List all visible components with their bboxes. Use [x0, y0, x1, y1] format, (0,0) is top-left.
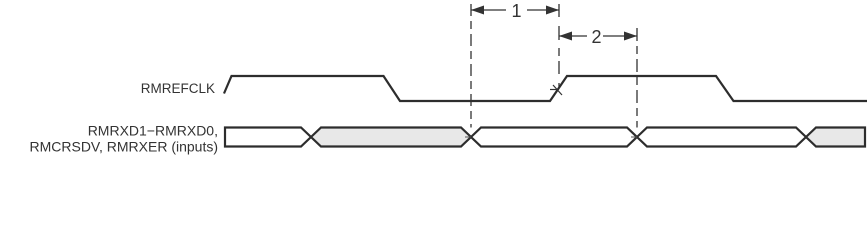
- dashed line B x=559: [558, 4, 560, 87]
- dimension 2 line left segment: [559, 35, 587, 37]
- bus segment 3 white 471-637: [471, 128, 637, 147]
- bus crossover tick at 471: [465, 136, 471, 138]
- bus segment 1 white 225-311: [225, 128, 311, 147]
- dimension 1 right arrowhead: [546, 6, 559, 15]
- bus segment 4 white 637-806: [637, 128, 806, 147]
- dimension 2 right arrowhead: [624, 32, 637, 41]
- dimension 1 line right segment: [527, 9, 559, 11]
- RMREFCLK clock waveform: [224, 76, 867, 101]
- bus segment 2 gray 311-471: [311, 128, 471, 147]
- dashed line C x=637: [636, 28, 638, 128]
- svg-text:RMREFCLK: RMREFCLK: [141, 81, 215, 96]
- dimension 2 line right segment: [603, 35, 637, 37]
- bus segment 5 gray 806-865: [806, 128, 865, 147]
- clock edge measurement tick diagonal: [553, 85, 562, 95]
- svg-text:2: 2: [591, 27, 601, 47]
- svg-text:1: 1: [511, 1, 521, 21]
- dimension 2 left arrowhead: [559, 32, 572, 41]
- bus crossover tick at 637: [631, 136, 637, 138]
- svg-text:RMCRSDV, RMRXER (inputs): RMCRSDV, RMRXER (inputs): [29, 139, 218, 155]
- svg-text:RMRXD1−RMRXD0,: RMRXD1−RMRXD0,: [88, 123, 218, 139]
- clock edge measurement tick horizontal: [550, 89, 557, 91]
- dimension 1 left arrowhead: [471, 6, 484, 15]
- dimension 1 line left segment: [471, 9, 506, 11]
- dashed line A x=471: [470, 4, 472, 128]
